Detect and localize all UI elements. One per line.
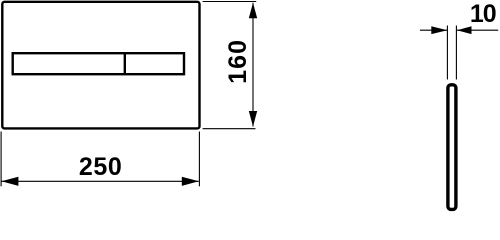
extension line left of dimension 250 xyxy=(0,132,2,187)
arrowhead bottom of dimension 160 xyxy=(249,111,257,127)
extension line bottom of dimension 160 xyxy=(203,128,256,130)
extension line left of dimension 10 xyxy=(446,26,448,80)
dimension line 10 left segment xyxy=(420,29,447,31)
flush button outline xyxy=(13,53,184,74)
button divider xyxy=(124,53,126,74)
extension line right of dimension 10 xyxy=(455,26,457,80)
extension line top of dimension 160 xyxy=(203,1,257,3)
dimension line 250 xyxy=(1,180,198,182)
arrowhead right of dimension 250 xyxy=(182,177,199,186)
arrowhead left of dimension 250 xyxy=(1,177,18,186)
svg-text:250: 250 xyxy=(79,153,123,181)
front view plate outline xyxy=(2,2,199,129)
arrowhead top of dimension 160 xyxy=(249,3,257,18)
extension line right of dimension 250 xyxy=(198,132,200,187)
dimension line 10 right segment xyxy=(457,29,498,31)
arrowhead right of dimension 10 (pointing left) xyxy=(457,26,472,34)
arrowhead left of dimension 10 (pointing right) xyxy=(431,26,447,34)
side view plate xyxy=(448,85,456,210)
svg-text:10: 10 xyxy=(470,0,496,28)
svg-text:160: 160 xyxy=(224,39,252,84)
dimension line 160 xyxy=(252,3,254,127)
